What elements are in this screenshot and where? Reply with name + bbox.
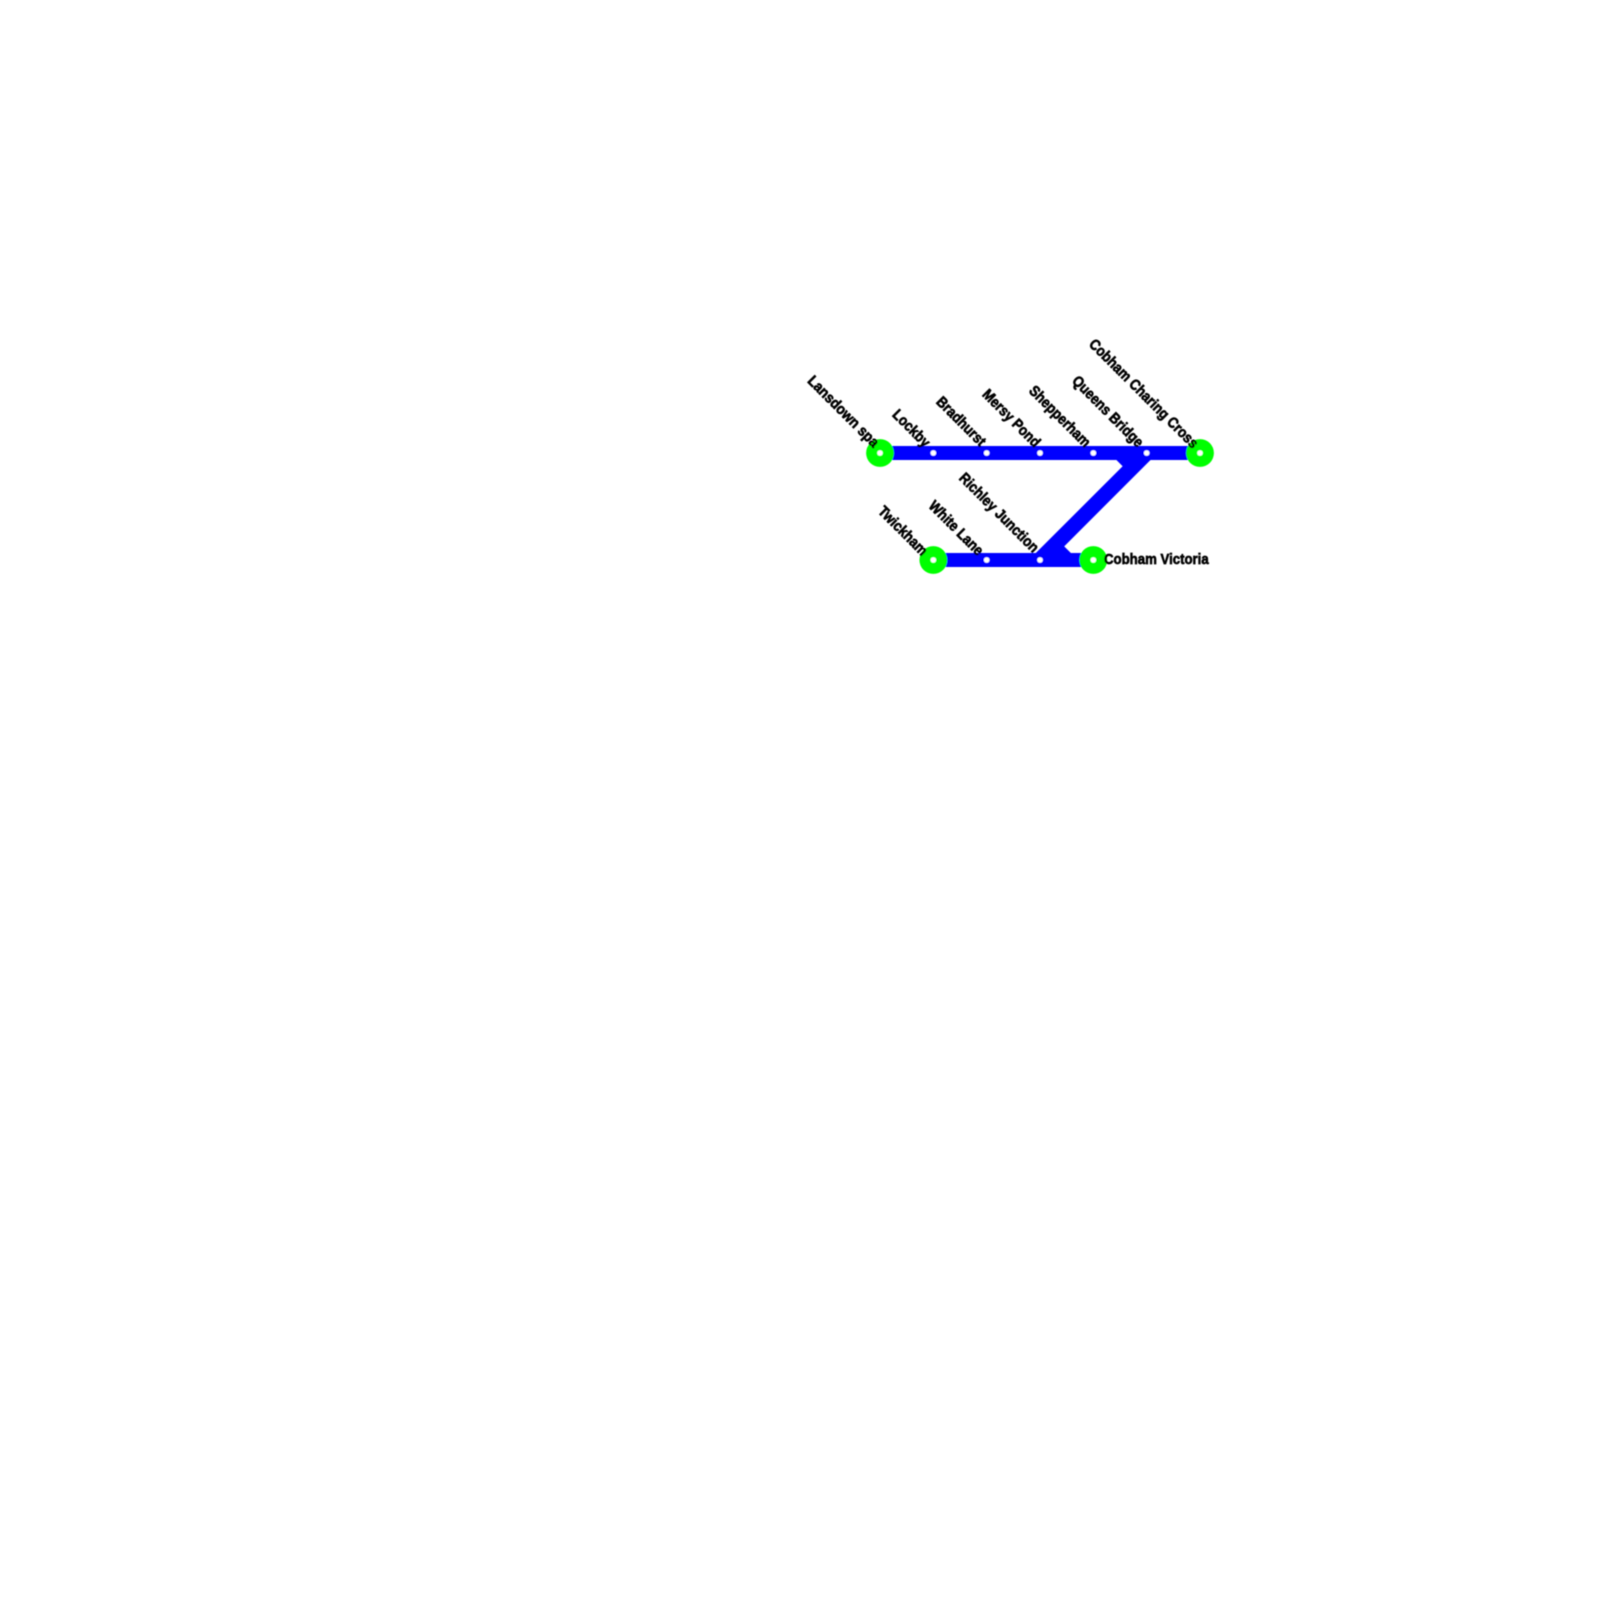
svg-text:Cobham Victoria: Cobham Victoria <box>1104 551 1209 568</box>
